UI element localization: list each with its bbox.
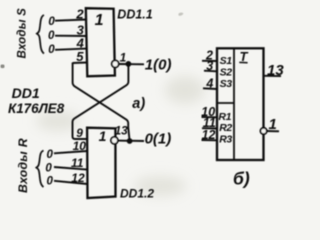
wire pin10 [54,151,87,153]
svg-text:DD1.2: DD1.2 [120,187,154,201]
wire DD1.1 output [119,63,144,65]
svg-text:Входы S: Входы S [17,8,29,59]
trigger pin number 10 [201,105,215,119]
trigger pin number 11 [203,116,216,130]
trigger function label T [240,49,249,64]
wire trigger pin4 [203,87,217,90]
pin number 13 [115,124,129,138]
svg-text:3: 3 [206,59,213,73]
faint scan mottling [36,76,205,196]
wire trigger output 1 [267,130,279,132]
svg-text:DD1.1: DD1.1 [117,7,152,21]
wire trigger pin3 [204,70,217,73]
pin number 12 [71,171,85,185]
inversion bubble DD1.1 output [112,60,119,67]
svg-text:0(1): 0(1) [145,130,172,147]
trigger pin number 2 [205,49,213,63]
pin number 2 [75,6,84,21]
gate DD1.2 body [87,128,115,198]
svg-text:2: 2 [75,6,84,21]
pin number 10 [73,139,87,153]
trigger block body (б) [217,48,264,160]
brace S inputs [37,15,44,54]
svg-text:К176ЛЕ8: К176ЛЕ8 [8,101,65,116]
svg-text:10: 10 [73,139,87,153]
wire DD1.2 output [118,140,144,142]
trigger pin number 1 [269,116,277,133]
label DD1 [12,85,40,101]
trigger pin number 12 [202,128,216,142]
scan artifact mark [1,65,5,69]
label Входы S [17,8,29,59]
junction node Q-bar [127,138,133,144]
svg-text:0: 0 [45,163,52,175]
inversion bubble DD1.2 output [111,137,118,144]
svg-text:а): а) [132,96,145,112]
wire trigger output 13 [264,75,282,77]
pin number 9 [76,126,83,140]
svg-text:0: 0 [47,176,54,188]
inversion bubble trigger output 1 [260,128,266,134]
trigger label column divider [233,48,235,160]
input symbol 0 (pin 11) [45,163,52,175]
svg-text:0: 0 [47,149,54,161]
input label S2 [220,67,233,79]
input label R2 [219,122,232,134]
svg-text:4: 4 [205,76,213,90]
input symbol 0 (pin 12) [47,176,54,188]
wire pin4 [55,49,87,50]
pin number 1 [120,50,127,64]
svg-text:1(0): 1(0) [145,56,172,73]
svg-text:13: 13 [267,62,284,79]
trigger pin number 4 [205,76,213,90]
input label S1 [220,55,233,67]
gate DD1.2 function symbol 1 [99,128,107,144]
svg-text:11: 11 [71,156,84,170]
input symbol 0 (pin 2) [48,16,55,28]
wire trigger pin10 [202,116,218,118]
scan artifact smudge [179,13,184,16]
wire pin2 [55,20,87,21]
svg-text:S1: S1 [220,55,233,67]
trigger S/R section divider [217,102,234,104]
junction node Q [125,61,131,67]
input label S3 [220,78,233,90]
trigger pin number 13 [267,62,284,79]
label б) [233,169,250,189]
wire pin12 [54,181,87,184]
svg-text:R2: R2 [219,122,232,134]
input label R1 [218,111,231,123]
label Входы R [16,138,30,193]
label DD1.1 [117,7,152,21]
svg-text:1: 1 [120,50,127,64]
input label R3 [219,133,232,145]
label DD1.2 [120,187,154,201]
gate DD1.1 function symbol 1 [95,12,104,29]
label 1(0) [145,56,172,73]
svg-text:S3: S3 [220,78,233,90]
svg-text:12: 12 [71,171,85,185]
wire trigger pin2 [202,60,217,62]
svg-text:DD1: DD1 [12,85,40,101]
pin number 5 [76,49,84,64]
svg-text:1: 1 [99,128,107,144]
svg-text:1: 1 [95,12,104,29]
svg-text:R1: R1 [218,111,231,123]
brace R inputs [36,151,43,188]
wire pin5 [73,62,87,65]
gate DD1.1 body [86,8,115,76]
svg-text:5: 5 [76,49,84,64]
trigger label T underline [239,61,247,63]
svg-text:б): б) [233,169,250,189]
wire DD1.1 output to DD1.2 pin9 (cross) [73,64,129,139]
wire pin3 [55,35,87,37]
wire trigger pin12 [202,139,218,141]
input symbol 0 (pin 3) [48,30,55,42]
svg-text:0: 0 [48,16,55,28]
svg-text:12: 12 [202,128,216,142]
wire feedback pin5 to DD1.2 output (cross) [73,63,130,141]
pin number 11 [71,156,84,170]
input symbol 0 (pin 10) [47,149,54,161]
wire pin11 [54,167,87,170]
svg-text:R3: R3 [219,133,232,145]
label а) [132,96,145,112]
wire trigger pin11 [202,127,217,129]
svg-text:1: 1 [269,116,277,133]
label 0(1) [145,130,172,147]
trigger pin number 3 [206,59,213,73]
svg-text:S2: S2 [220,67,233,79]
input symbol 0 (pin 4) [48,44,55,56]
svg-text:13: 13 [115,124,129,138]
pin number 4 [76,36,85,51]
svg-text:Входы R: Входы R [16,138,30,193]
label К176ЛЕ8 [8,101,65,116]
pin number 3 [77,23,85,38]
svg-text:0: 0 [48,44,55,56]
svg-text:0: 0 [48,30,55,42]
